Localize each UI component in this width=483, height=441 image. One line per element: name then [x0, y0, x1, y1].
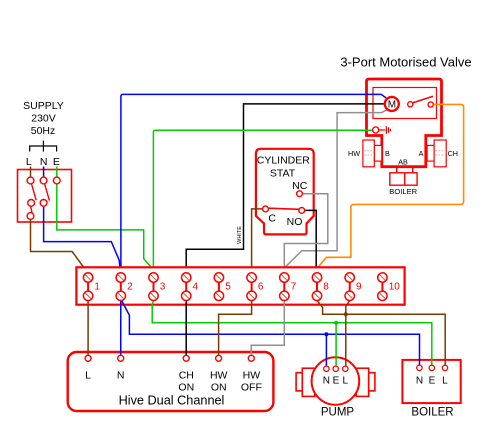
hive dual channel box [68, 352, 274, 411]
svg-text:CH: CH [179, 370, 194, 382]
label SUPPLY 230V 50Hz [23, 100, 64, 137]
valve port HW (left) [374, 145, 382, 161]
wire grey: stat NC to terminal 7 [284, 194, 328, 273]
wire green branch to pump E [335, 323, 337, 367]
supply switch box [18, 170, 72, 223]
valve earth symbol [379, 126, 391, 134]
svg-text:PUMP: PUMP [321, 407, 355, 419]
svg-text:1: 1 [94, 282, 100, 293]
valve motor M [385, 97, 399, 111]
hive terminal circles [85, 355, 254, 361]
svg-text:B: B [385, 149, 390, 158]
cylinder stat labels [257, 155, 311, 228]
svg-text:NC: NC [292, 180, 308, 192]
svg-text:BOILER: BOILER [411, 407, 453, 419]
svg-text:HW: HW [243, 370, 261, 382]
svg-text:C: C [268, 212, 276, 224]
svg-text:A: A [419, 149, 424, 158]
supply terminal circles [27, 177, 60, 219]
wire E through supply box (green) [57, 167, 154, 270]
svg-text:7: 7 [291, 282, 297, 293]
stat contact circles [297, 191, 303, 197]
labels L N E [26, 156, 60, 168]
wire blue: terminal 2 to valve motor [121, 94, 386, 272]
wire grey: valve to terminal 7 [284, 110, 387, 273]
svg-text:3: 3 [160, 282, 166, 293]
svg-text:ON: ON [211, 382, 227, 394]
svg-text:3-Port Motorised Valve: 3-Port Motorised Valve [340, 55, 471, 70]
boiler labels N E L [416, 375, 448, 386]
wire blue: terminal 2 to hive N [120, 301, 122, 356]
wire L stem (brown) [30, 167, 32, 178]
wire orange: valve switch to terminal 8 [317, 104, 464, 272]
valve microswitch [413, 96, 433, 103]
svg-text:5: 5 [225, 282, 231, 293]
svg-text:HW: HW [348, 149, 360, 158]
valve inner control box [373, 88, 437, 119]
svg-text:N: N [117, 370, 125, 382]
svg-text:50Hz: 50Hz [31, 125, 56, 137]
svg-text:ON: ON [178, 382, 194, 394]
pump flanges [296, 368, 375, 396]
svg-text:STAT: STAT [270, 168, 296, 180]
switch pole L arm [32, 184, 37, 201]
svg-text:10: 10 [389, 282, 401, 293]
terminal numbers [94, 282, 400, 293]
wire blue branch to pump N [325, 334, 327, 366]
cylinder stat body [256, 149, 314, 235]
wire brown: terminal 1 to hive L [87, 301, 89, 356]
pump labels N E L [323, 375, 349, 386]
svg-text:E: E [53, 156, 60, 168]
svg-text:Hive Dual Channel: Hive Dual Channel [119, 394, 225, 408]
switch pole N arm [45, 184, 50, 201]
junction blue [324, 332, 328, 336]
valve earth terminal [373, 127, 379, 133]
wire brown: terminal 6 to hive HW ON [219, 301, 252, 356]
3-port valve body [367, 79, 442, 167]
svg-text:WHITE: WHITE [237, 226, 243, 244]
svg-text:E: E [429, 375, 436, 386]
svg-text:N: N [323, 375, 330, 386]
wire blue: terminal 2 to pump N and boiler N [121, 300, 419, 366]
svg-text:BOILER: BOILER [389, 187, 417, 196]
terminal screw slashes [85, 275, 385, 299]
pump terminal circles [324, 366, 348, 371]
svg-text:OFF: OFF [241, 382, 262, 394]
switch link L2-L3 [31, 206, 32, 212]
junction brown [344, 312, 348, 316]
wire green: terminal 3 to valve earth [153, 130, 372, 273]
supply cable bracket symbol [30, 141, 57, 152]
wire grey: terminal 7 to hive HW OFF [251, 301, 284, 356]
wire black (WHITE): valve motor to terminal 4 [186, 104, 384, 273]
svg-text:6: 6 [258, 282, 264, 293]
wire N blue: switch to terminal 2 [44, 206, 121, 272]
pump body circle [312, 357, 360, 405]
svg-text:9: 9 [356, 282, 362, 293]
wire L brown: switch to terminal 1 [31, 219, 88, 272]
svg-text:N: N [40, 156, 48, 168]
wire brown: terminal 9 drop [346, 301, 350, 315]
svg-text:HW: HW [210, 370, 228, 382]
svg-text:L: L [442, 375, 448, 386]
svg-text:4: 4 [193, 282, 199, 293]
terminal link bars [88, 282, 382, 291]
svg-text:L: L [343, 375, 349, 386]
junction green [334, 321, 338, 325]
valve port CH (right) [427, 145, 434, 161]
svg-text:M: M [388, 100, 396, 111]
wire brown branch to pump L [345, 314, 347, 366]
valve AB port stems [396, 168, 398, 173]
svg-text:E: E [333, 375, 340, 386]
wire green: terminal 3 to pump E and boiler E [152, 301, 432, 366]
wire brown: stat C to terminal 6 [252, 209, 263, 273]
valve port labels [348, 149, 458, 196]
svg-text:8: 8 [323, 282, 329, 293]
svg-text:2: 2 [127, 282, 133, 293]
svg-text:AB: AB [398, 158, 408, 167]
boiler terminal circles [417, 365, 448, 370]
stat switch arm [268, 208, 299, 209]
svg-text:CYLINDER: CYLINDER [257, 155, 311, 167]
terminal circles 1-10 [83, 273, 387, 301]
wire N stem (blue) [43, 167, 45, 178]
wire black: stat NO to terminal 8 [305, 210, 317, 272]
hive labels [85, 370, 262, 394]
terminal strip box [76, 267, 404, 304]
svg-text:L: L [26, 156, 32, 168]
svg-text:CH: CH [448, 149, 458, 158]
svg-text:SUPPLY: SUPPLY [23, 100, 64, 112]
svg-text:L: L [85, 370, 91, 382]
svg-text:NO: NO [287, 216, 303, 228]
valve boiler port box [390, 173, 417, 185]
boiler box [402, 360, 460, 403]
svg-text:N: N [416, 375, 423, 386]
wire black: terminal 4 to hive CH ON [185, 301, 187, 356]
svg-text:230V: 230V [31, 113, 56, 125]
wire brown: terminal 8 to junction [317, 301, 445, 366]
